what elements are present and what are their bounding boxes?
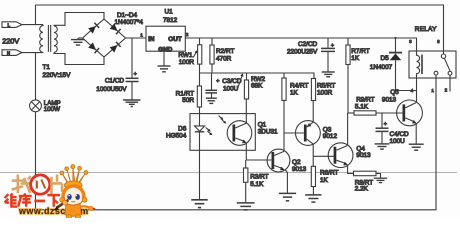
lamp LAMP 100W — [30, 100, 42, 112]
watermark tan character pian — [51, 174, 62, 194]
resistor R9/RT 5.1K — [354, 111, 376, 115]
wire N branch down to lamp — [35, 53, 37, 100]
ground C1 — [123, 100, 140, 107]
wire C4 branch — [381, 113, 383, 128]
wire C1 branch — [131, 38, 133, 78]
transformer T1 secondary winding — [54, 26, 57, 52]
svg-text:RELAY: RELAY — [415, 26, 437, 33]
wire U1 GND pin — [163, 51, 165, 65]
wire node to Q4 base — [313, 155, 333, 157]
ground Q2 — [279, 193, 296, 200]
diode D5 1N4007 — [389, 53, 402, 61]
svg-text:Q5: Q5 — [390, 89, 399, 96]
svg-text:100U: 100U — [223, 85, 239, 92]
wire Q1 emitter to node — [245, 143, 247, 160]
watermark mascot brush — [53, 200, 68, 211]
optocoupler D6 HG504 package box — [190, 114, 255, 151]
relay armature — [444, 58, 450, 71]
wire L to transformer — [22, 24, 43, 26]
resistor R3/RT 5.1K — [244, 168, 248, 182]
svg-text:1K: 1K — [320, 177, 329, 184]
terminal L — [2, 22, 22, 28]
svg-text:+: + — [216, 79, 219, 85]
relay contact NO — [434, 71, 438, 75]
svg-text:R6/RT: R6/RT — [320, 170, 338, 177]
capacitor C2 — [321, 48, 335, 51]
wire R4 top — [283, 73, 285, 78]
resistor R6/RT 1K — [311, 166, 315, 186]
transistor Q4 9013 — [328, 143, 353, 168]
potentiometer RW1 100R — [193, 45, 202, 64]
wire RW2 to Q1 collector — [245, 99, 247, 123]
terminal N — [2, 50, 22, 56]
wire C4 to ground — [381, 131, 383, 143]
wire C3 branch — [211, 73, 213, 90]
svg-text:220V: 220V — [2, 37, 19, 46]
wire bridge positive to U1 IN — [126, 37, 147, 39]
bridge rectifier D1-D4 frame — [83, 19, 126, 57]
svg-text:2200U25V: 2200U25V — [287, 49, 318, 56]
wire R8 to ground — [376, 174, 381, 178]
wire Q2 emitter to ground — [286, 170, 288, 193]
svg-text:D1~D4: D1~D4 — [117, 12, 138, 19]
svg-text:RW1: RW1 — [178, 52, 193, 59]
wire R5 to Q3 emitter — [312, 101, 314, 123]
svg-text:68K: 68K — [251, 82, 263, 89]
wire R2 top — [211, 38, 213, 45]
phototransistor Q1 3DU31 — [227, 121, 252, 146]
wire LED cathode to ground — [199, 132, 201, 199]
diode D1 top-left — [88, 23, 99, 34]
wire R9 to Q5 base — [376, 112, 403, 114]
svg-text:R7/RT: R7/RT — [351, 48, 369, 55]
relay common pivot — [441, 54, 445, 58]
wire R3 to ground — [245, 182, 247, 202]
LED light arrows — [206, 127, 213, 135]
transistor Q5 9013 — [397, 100, 423, 126]
svg-text:9012: 9012 — [323, 133, 338, 140]
svg-text:Q1: Q1 — [258, 121, 267, 128]
svg-text:9013: 9013 — [356, 152, 371, 159]
svg-text:+: + — [384, 121, 387, 127]
watermark mascot crown — [60, 165, 88, 190]
svg-text:7812: 7812 — [163, 17, 178, 24]
watermark red character yi — [34, 200, 45, 203]
transformer T1 core — [47, 25, 49, 52]
svg-text:100W: 100W — [44, 106, 60, 113]
watermark mascot head — [63, 185, 84, 206]
watermark url www.dzsc.com — [18, 206, 89, 216]
resistor R2/RT 470R — [210, 45, 214, 64]
watermark mascot feet — [66, 215, 80, 219]
watermark mascot body — [65, 203, 81, 216]
watermark red character ku — [18, 193, 31, 207]
svg-text:HG504: HG504 — [166, 133, 187, 140]
capacitor C4 — [376, 128, 389, 131]
svg-text:1N4007*4: 1N4007*4 — [115, 19, 144, 26]
svg-text:2.2K: 2.2K — [355, 185, 369, 192]
wire RW1 top — [199, 38, 201, 45]
resistor R8/RT 2.2K — [354, 171, 377, 176]
diode D2 top-right — [110, 23, 121, 34]
ground R3 — [237, 203, 255, 210]
svg-text:R9/RT: R9/RT — [356, 97, 374, 104]
transformer T1 primary winding — [40, 25, 43, 53]
wire R4 to Q2 collector and Q3 base node — [283, 100, 285, 151]
ground C4 — [375, 144, 390, 149]
wire +12V rail OUT to relay coil — [185, 38, 416, 51]
svg-text:R5/RT: R5/RT — [317, 82, 335, 89]
resistor R7/RT 1K — [346, 45, 350, 65]
svg-text:R3/RT: R3/RT — [250, 174, 268, 181]
ground at bridge negative — [71, 38, 85, 45]
svg-text:+: + — [134, 71, 137, 77]
watermark tan character zhao — [12, 174, 31, 192]
watermark mascot eyes — [67, 194, 80, 202]
diode D4 bottom-right — [110, 42, 121, 53]
wire RW2 top — [246, 73, 248, 80]
ground C2 — [322, 72, 335, 77]
LED D6 emitter diode — [195, 126, 205, 132]
ground C3 — [206, 98, 217, 103]
svg-text:100U: 100U — [390, 138, 406, 145]
svg-text:L: L — [8, 23, 11, 28]
wire relay NC stub — [449, 75, 451, 91]
transistor Q2 9013 — [267, 149, 290, 172]
svg-text:N: N — [7, 51, 10, 56]
svg-text:IN: IN — [148, 36, 155, 43]
transistor Q3 9012 — [296, 121, 321, 146]
wire R7 top — [347, 38, 349, 45]
relay coil — [417, 51, 420, 78]
ground U1 — [158, 66, 171, 72]
svg-text:1N4007: 1N4007 — [370, 64, 393, 71]
wire C1 to ground — [131, 82, 133, 100]
wire D5 branch — [395, 38, 397, 52]
svg-text:470R: 470R — [216, 56, 232, 63]
wire relay coil bottom to Q5 collector — [416, 78, 418, 102]
ground D6 LED — [191, 200, 207, 208]
wire top rail 220V to relay — [36, 5, 444, 54]
wire RW1 to R1 — [199, 64, 201, 86]
svg-text:OUT: OUT — [168, 36, 181, 43]
svg-text:5.1K: 5.1K — [250, 181, 264, 188]
wire node to R3 — [245, 160, 247, 168]
svg-text:D5: D5 — [381, 55, 390, 62]
diode D3 bottom-left — [88, 42, 99, 53]
wire D5 anode to relay coil pin — [396, 60, 417, 90]
wire R7 to R9 node — [347, 65, 349, 114]
svg-text:1K: 1K — [290, 89, 299, 96]
svg-text:D6: D6 — [178, 125, 187, 132]
IC U1 7812 body — [146, 26, 185, 51]
wire Q3 collector to node — [312, 144, 314, 156]
wire node to R9 — [348, 112, 354, 114]
watermark red character xia — [47, 195, 60, 207]
svg-text:9013: 9013 — [292, 166, 307, 173]
svg-text:3DU31: 3DU31 — [258, 129, 278, 136]
watermark mascot right arm — [80, 206, 95, 210]
svg-text:R4/RT: R4/RT — [290, 82, 308, 89]
watermark red ring — [31, 175, 50, 194]
svg-text:5.1K: 5.1K — [355, 104, 369, 111]
wire node to R6 — [312, 156, 314, 166]
svg-text:100R: 100R — [179, 59, 195, 66]
svg-text:R2/RT: R2/RT — [216, 48, 234, 55]
wire divider rail node A — [200, 73, 315, 79]
wire Q5 emitter to ground — [415, 124, 417, 144]
svg-text:50R: 50R — [182, 97, 194, 104]
svg-text:220V:15V: 220V:15V — [43, 72, 72, 79]
wire C2 branch — [327, 38, 329, 48]
watermark mascot ears — [60, 197, 87, 202]
relay contact NC — [448, 71, 452, 75]
watermark red character wei — [5, 193, 18, 206]
ground Q5 — [409, 144, 424, 150]
svg-text:1K: 1K — [351, 55, 360, 62]
wire secondary bottom to bridge — [54, 53, 104, 65]
capacitor C1 — [126, 78, 139, 81]
wire secondary top to bridge — [54, 13, 104, 26]
wire Q3 base from R4 node — [284, 132, 304, 134]
wire C3 to ground — [211, 93, 213, 98]
svg-text:U1: U1 — [165, 8, 174, 15]
potentiometer RW2 68K — [237, 73, 249, 99]
junction D5 rail — [394, 37, 396, 39]
wire R2 bottom to node A — [211, 64, 213, 73]
relay coil core — [421, 55, 423, 75]
relay box — [409, 51, 456, 78]
wire R1 to optocoupler LED — [199, 107, 201, 126]
phototransistor light arrows — [219, 116, 227, 124]
svg-text:T1: T1 — [43, 64, 51, 71]
svg-text:+: + — [331, 43, 334, 49]
resistor R1/RT 50R — [197, 86, 201, 107]
wire Q4 emitter to R8 — [348, 165, 354, 173]
svg-text:C1/CD: C1/CD — [105, 78, 125, 85]
wire N to transformer — [22, 52, 43, 54]
svg-text:C2/CD: C2/CD — [298, 41, 318, 48]
wire horizontal scan fold line — [0, 172, 457, 174]
svg-text:1000U50V: 1000U50V — [96, 86, 127, 93]
wire Q4 collector to R7 node — [347, 113, 349, 145]
ground R8 — [374, 178, 387, 182]
resistor R5/RT 100R — [311, 79, 315, 101]
wire L branch up to top rail — [35, 5, 37, 25]
wire Q1 node to Q2 base — [246, 159, 271, 161]
wire C2 to ground — [327, 51, 329, 71]
svg-text:9013: 9013 — [382, 97, 397, 104]
wire R6 to ground — [312, 187, 314, 195]
resistor R4/RT 1K — [282, 78, 286, 100]
svg-text:GND: GND — [158, 46, 172, 53]
capacitor C3 — [205, 90, 217, 93]
wire bottom rail lamp to relay contact — [36, 75, 437, 210]
ground R6 — [305, 195, 321, 202]
wire lamp to bottom rail — [35, 112, 37, 210]
svg-text:100R: 100R — [317, 89, 333, 96]
